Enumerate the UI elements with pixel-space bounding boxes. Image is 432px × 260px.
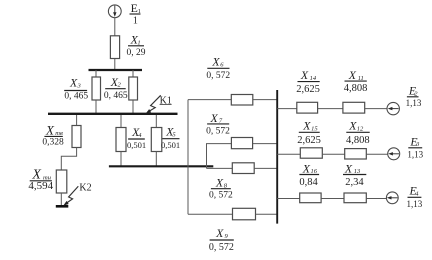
- svg-text:X: X: [45, 123, 55, 138]
- label X16 value fraction: [299, 161, 319, 188]
- label X4 value fraction: [127, 125, 146, 150]
- label X6 value fraction: [206, 55, 230, 81]
- wire X11 to E2: [365, 108, 387, 110]
- svg-text:2,625: 2,625: [297, 135, 321, 146]
- wire X12 to E3: [366, 153, 387, 155]
- svg-text:X: X: [344, 161, 353, 175]
- K1 fault lightning arrow: [146, 95, 161, 113]
- label X15 value fraction: [297, 119, 321, 146]
- reactance X15 box: [300, 148, 322, 158]
- bus bar 3: [109, 165, 213, 167]
- svg-text:X: X: [302, 161, 311, 175]
- label X1 value fraction: [127, 33, 146, 59]
- svg-text:0, 572: 0, 572: [209, 242, 234, 253]
- reactance X11 box: [343, 102, 365, 113]
- label E1 value fraction: [130, 1, 142, 26]
- wire bus4 to X16: [277, 198, 300, 200]
- reactance X1 box: [110, 36, 119, 59]
- svg-text:X: X: [348, 68, 357, 82]
- svg-text:0, 572: 0, 572: [206, 71, 230, 81]
- EMF source E4 circle with left arrow: [386, 192, 398, 204]
- label X8 value fraction: [209, 176, 233, 201]
- svg-text:0, 572: 0, 572: [209, 191, 233, 201]
- bus bar 2 (K1 bus): [48, 113, 178, 115]
- EMF source E2 circle with left arrow: [387, 102, 399, 114]
- label K1: [160, 95, 172, 106]
- svg-text:0,501: 0,501: [161, 140, 180, 150]
- svg-text:0, 465: 0, 465: [104, 91, 128, 101]
- wire bus1 to X3: [95, 70, 97, 77]
- svg-text:0, 572: 0, 572: [206, 126, 230, 136]
- wire X7 to bus4: [253, 143, 277, 145]
- wire Xtv to Xtn jog: [61, 148, 76, 171]
- reactance X9 box: [233, 208, 256, 220]
- reactance X16 box: [300, 193, 321, 203]
- wire X13 to E4: [366, 198, 386, 200]
- wire X4 to bus3: [120, 152, 122, 167]
- EMF source E3 circle with left arrow: [388, 148, 400, 160]
- reactance X2 box: [129, 77, 138, 100]
- svg-text:0, 465: 0, 465: [64, 91, 88, 101]
- wire X15 to X12: [322, 153, 344, 155]
- label X14 value fraction: [296, 68, 320, 95]
- reactance X12 box: [345, 149, 367, 159]
- svg-text:0,328: 0,328: [42, 138, 64, 148]
- svg-text:14: 14: [310, 75, 317, 82]
- wire bus4 to X15: [277, 153, 300, 155]
- label X13 value fraction: [343, 161, 366, 188]
- reactance X3 box: [92, 77, 101, 100]
- svg-text:4,594: 4,594: [28, 180, 53, 192]
- wire X2 to bus2: [132, 100, 134, 113]
- wire Xtn to ground: [60, 193, 62, 206]
- wire X1 to bus1: [114, 59, 116, 71]
- svg-text:3: 3: [415, 141, 420, 148]
- reactance X13 box: [344, 193, 366, 203]
- label X9 value fraction: [209, 226, 234, 253]
- svg-text:X: X: [210, 111, 219, 125]
- svg-text:1: 1: [133, 15, 138, 26]
- reactance X8 box: [232, 163, 254, 174]
- wire X3 to bus2: [95, 100, 97, 113]
- bus bar 4 right vertical: [276, 90, 278, 224]
- wire feeder to X6: [188, 99, 231, 101]
- wire X16 to X13: [321, 198, 344, 200]
- svg-text:X: X: [211, 55, 220, 69]
- svg-text:X: X: [215, 176, 224, 190]
- svg-text:12: 12: [357, 125, 364, 132]
- wire bus2 to X4: [120, 115, 122, 128]
- svg-text:1,13: 1,13: [406, 98, 422, 108]
- label X12 value fraction: [346, 119, 370, 146]
- wire junction to X8: [207, 167, 233, 169]
- EMF source G1 circle with down arrow: [108, 5, 121, 18]
- label E3 value fraction: [407, 134, 423, 159]
- svg-text:E: E: [131, 1, 138, 15]
- reactance Xtn box: [56, 170, 67, 193]
- label X11 value fraction: [344, 68, 368, 94]
- svg-text:15: 15: [311, 125, 318, 132]
- reactance Xtv box: [72, 126, 81, 148]
- vertical feeder wire left of middle section: [187, 100, 189, 215]
- svg-text:1,13: 1,13: [407, 149, 423, 159]
- wire bus4 to X14: [277, 108, 297, 110]
- wire X9 to bus4: [256, 213, 278, 215]
- reactance X14 box: [297, 102, 318, 113]
- wire X6 to bus4: [253, 99, 277, 101]
- svg-text:2,34: 2,34: [345, 177, 364, 188]
- wire junction to X7: [207, 144, 232, 169]
- svg-text:X: X: [215, 226, 224, 240]
- label X2 value fraction: [104, 75, 128, 101]
- svg-text:0, 29: 0, 29: [127, 48, 146, 58]
- wire bus1 to X2: [132, 70, 134, 77]
- bus bar 1: [89, 69, 143, 71]
- reactance X6 box: [231, 95, 253, 106]
- reactance X4 box: [116, 128, 126, 152]
- label E4 value fraction: [407, 184, 423, 209]
- wire generator to X1: [114, 18, 116, 36]
- label E2 value fraction: [406, 84, 422, 108]
- svg-text:X: X: [300, 68, 309, 82]
- svg-text:4,808: 4,808: [344, 83, 368, 94]
- wire bus2 to X5: [155, 115, 157, 128]
- wire feeder to X9: [188, 213, 233, 215]
- label X7 value fraction: [206, 111, 230, 137]
- label Xtv value fraction: [42, 123, 64, 148]
- svg-text:0,501: 0,501: [127, 140, 146, 150]
- wire bus2 to Xtv: [76, 115, 78, 126]
- ground: [56, 205, 69, 208]
- wire X14 to X11: [318, 108, 343, 110]
- svg-text:K2: K2: [79, 182, 91, 193]
- svg-text:1,13: 1,13: [407, 199, 423, 209]
- svg-text:X: X: [302, 119, 311, 133]
- svg-text:2,625: 2,625: [296, 84, 320, 95]
- label Xtn value fraction: [28, 168, 53, 192]
- reactance X7 box: [231, 138, 252, 149]
- wire X8 to bus4: [254, 167, 277, 169]
- label X3 value fraction: [64, 76, 88, 102]
- label X5 value fraction: [161, 125, 180, 150]
- svg-text:0,84: 0,84: [299, 177, 318, 188]
- K2 fault lightning arrow: [64, 186, 79, 205]
- wire X5 to bus3: [155, 152, 157, 167]
- reactance X5 box: [151, 128, 162, 152]
- svg-text:4,808: 4,808: [346, 135, 370, 146]
